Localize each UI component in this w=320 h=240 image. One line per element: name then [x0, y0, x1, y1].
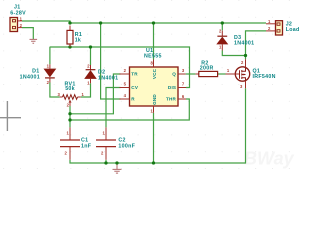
svg-text:50k: 50k: [65, 86, 75, 92]
junction rail reset riser: [99, 21, 102, 24]
wire D3 anode to drain node: [222, 51, 245, 56]
wire C2 bottom to rail: [105, 160, 107, 163]
wire D3 cathode riser to rail: [221, 23, 223, 30]
wire DIS node horizontal to pin 7: [50, 47, 190, 88]
diode D2: [84, 63, 118, 85]
wire bottom ground rail and Q1 source riser: [70, 88, 246, 163]
svg-text:Load: Load: [286, 27, 300, 33]
wire timing node to TR pin 2: [70, 74, 121, 114]
wire D1 anode riser: [49, 47, 51, 64]
junction timing THR: [68, 118, 71, 121]
svg-text:DIS: DIS: [168, 85, 176, 90]
svg-text:THR: THR: [166, 97, 177, 102]
junction timing TR: [68, 112, 71, 115]
svg-text:Q: Q: [172, 72, 176, 77]
svg-text:C1: C1: [81, 138, 88, 144]
wire GND pin 1 to bottom rail: [153, 113, 155, 163]
wire D2 cathode riser: [90, 47, 92, 65]
diode D1: [20, 63, 57, 85]
junction rail R1: [68, 21, 71, 24]
svg-text:TR: TR: [131, 72, 138, 77]
junction rail IC gnd: [152, 161, 155, 164]
junction rail D3: [221, 21, 224, 24]
svg-text:BWay: BWay: [244, 149, 295, 169]
connector J1: [10, 5, 26, 32]
wire RV1 wiper stem to C1: [69, 106, 71, 127]
resistor R1: [67, 26, 82, 48]
wire J1 pin2 to ground: [22, 28, 33, 39]
junction rail gnd: [115, 161, 118, 164]
resistor R2: [196, 60, 219, 76]
wire CV pin 5 to C2: [106, 88, 121, 128]
wire drain riser to J2 pin2: [246, 31, 267, 59]
svg-text:1N4001: 1N4001: [98, 75, 118, 81]
svg-text:CV: CV: [131, 85, 139, 90]
junction rail C2: [104, 161, 107, 164]
wire Q pin 3 to R2: [186, 73, 196, 75]
wire VCC pin 8 riser: [153, 23, 155, 60]
timer IC U1 NE555: [120, 48, 187, 113]
ground symbol GND (rail): [113, 163, 122, 173]
svg-text:1nF: 1nF: [81, 144, 92, 150]
svg-text:1N4001: 1N4001: [234, 40, 254, 46]
junction DIS node D2: [89, 45, 92, 48]
wire RV1 pin1 to D2 anode: [81, 83, 91, 97]
connector J2: [266, 19, 300, 35]
ground symbol GND (J1): [30, 39, 38, 43]
svg-text:1N4001: 1N4001: [20, 74, 40, 80]
svg-text:100nF: 100nF: [118, 144, 135, 150]
svg-text:1k: 1k: [75, 37, 82, 43]
capacitor C1: [60, 127, 92, 159]
wire D1 cathode to RV1 pin3: [50, 83, 60, 98]
capacitor C2: [96, 127, 136, 159]
svg-text:GND: GND: [152, 94, 157, 105]
svg-text:VCC: VCC: [152, 68, 157, 79]
wire timing node to THR pin 6: [70, 99, 189, 120]
svg-text:NE555: NE555: [144, 54, 162, 60]
wire VCC rail from J1 pin1: [22, 21, 266, 23]
potentiometer RV1: [57, 81, 84, 107]
svg-text:6-28V: 6-28V: [10, 10, 26, 16]
svg-text:IRF540N: IRF540N: [253, 74, 276, 80]
wire R2 to Q1 gate: [218, 73, 226, 75]
svg-text:200R: 200R: [200, 65, 214, 71]
svg-text:R: R: [131, 97, 135, 102]
junction rail VCC: [152, 21, 155, 24]
wire R pin 4 reset to VCC rail: [101, 23, 121, 99]
MOSFET Q1 IRF540N: [226, 59, 276, 89]
diode D3: [216, 28, 254, 50]
junction drain D3: [244, 54, 247, 57]
svg-text:C2: C2: [118, 138, 125, 144]
junction DIS node R1: [68, 45, 71, 48]
